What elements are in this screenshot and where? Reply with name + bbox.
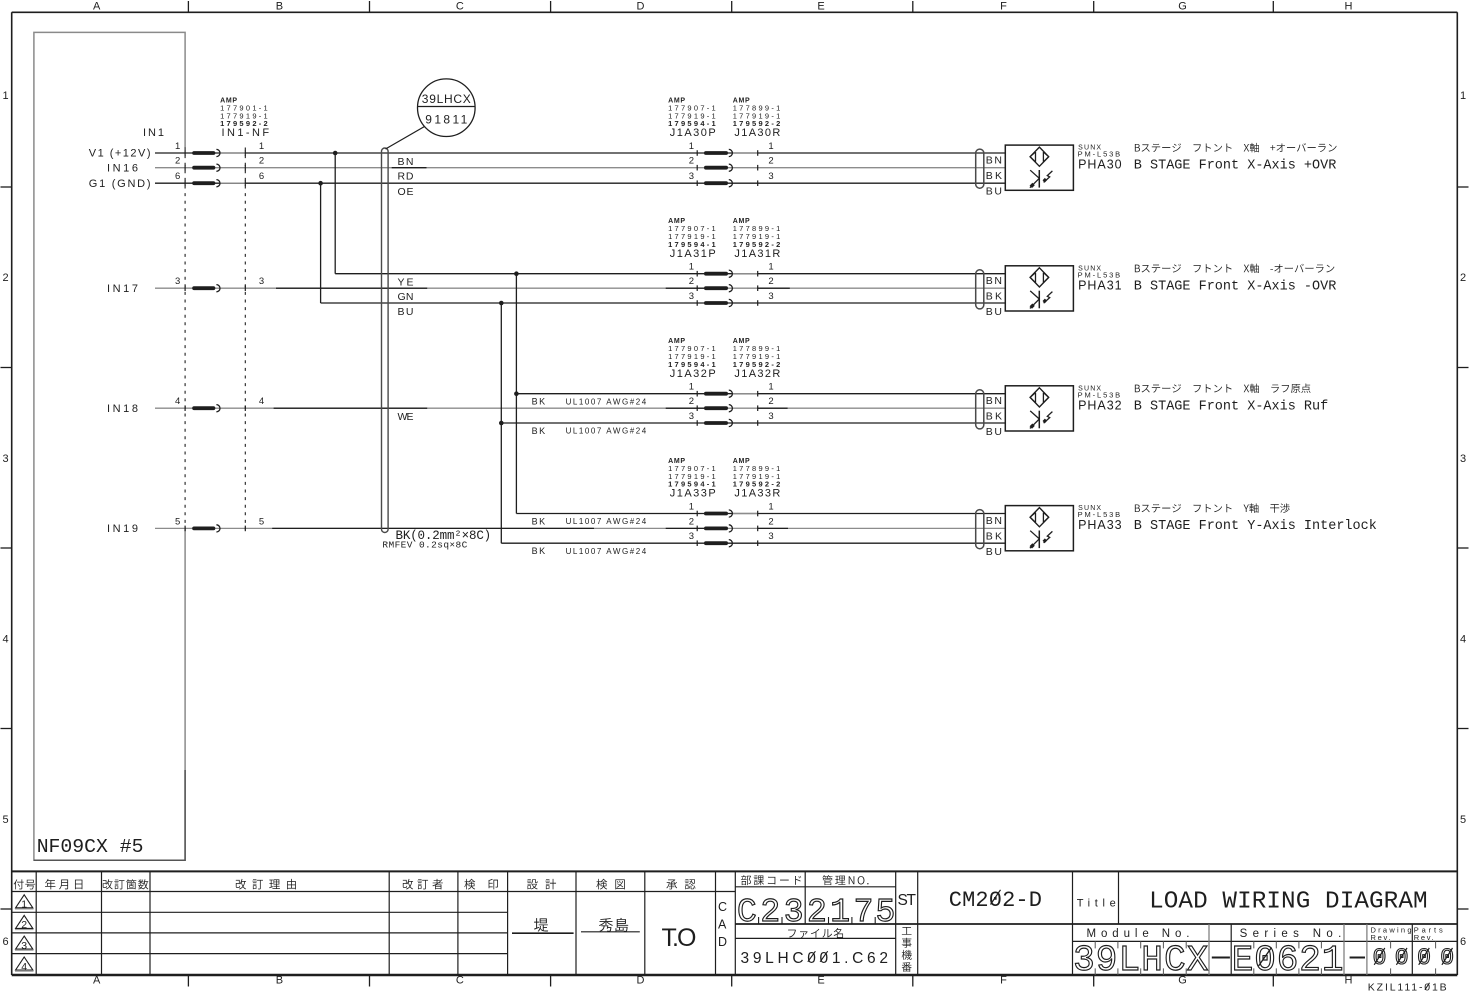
- connector IN1 dashed line P: [184, 148, 186, 530]
- svg-text:B STAGE Front X-Axis -OVR: B STAGE Front X-Axis -OVR: [1134, 279, 1337, 294]
- wire IN19 black segment a: [272, 527, 594, 529]
- svg-text:PHA32: PHA32: [1078, 398, 1122, 412]
- wire gray segment P-R group4 row1: [732, 513, 758, 515]
- revision row line 1: [12, 911, 508, 913]
- svg-text:3: 3: [768, 291, 773, 302]
- junction group2 row1: [514, 271, 519, 276]
- svg-text:3: 3: [259, 276, 264, 287]
- svg-text:BU: BU: [986, 426, 1002, 438]
- svg-text:3: 3: [689, 291, 694, 302]
- code C23 cell ticks: [759, 917, 876, 924]
- filename zero slashes: [808, 951, 828, 962]
- svg-text:B: B: [276, 975, 283, 987]
- svg-text:H: H: [1141, 940, 1163, 981]
- svg-text:RMFEV 0.2sq×8C: RMFEV 0.2sq×8C: [382, 540, 467, 551]
- svg-text:C: C: [456, 975, 464, 987]
- svg-text:1: 1: [768, 382, 773, 393]
- svg-text:1: 1: [689, 141, 694, 152]
- svg-text:Rev.: Rev.: [1414, 933, 1434, 942]
- sensor PHA31 maker label: [1078, 265, 1121, 279]
- svg-text:7: 7: [854, 894, 874, 931]
- svg-text:4: 4: [21, 961, 27, 973]
- svg-text:2: 2: [768, 516, 773, 527]
- module no dash 1: [1212, 957, 1230, 959]
- wire BK row1 group4: [516, 513, 1005, 515]
- zone ticks left: [1, 187, 12, 909]
- wire BK row3 group4: [501, 542, 1005, 544]
- svg-text:L: L: [1119, 940, 1141, 981]
- svg-text:2: 2: [689, 276, 694, 287]
- junction group2 row3: [499, 301, 504, 306]
- wire G1 GND (row3 group1): [155, 182, 1005, 184]
- revision row line 2: [12, 932, 508, 934]
- svg-text:2: 2: [760, 894, 780, 931]
- header 検印: [464, 879, 498, 890]
- header Parts Rev.: [1414, 926, 1443, 943]
- svg-text:4: 4: [259, 396, 264, 407]
- sensor PHA30 JP description: [1135, 143, 1337, 152]
- wire IN19 black segment b: [666, 527, 704, 529]
- svg-text:2: 2: [175, 156, 180, 167]
- sensor PHA33 maker label: [1078, 505, 1121, 519]
- zone letters bottom: [93, 975, 1352, 987]
- svg-text:GN: GN: [398, 291, 414, 303]
- svg-text:NF09CX #5: NF09CX #5: [37, 836, 144, 858]
- CAD column letters: [718, 900, 727, 949]
- svg-text:J1A31P: J1A31P: [670, 248, 716, 260]
- svg-text:C: C: [718, 900, 727, 914]
- connector IN1 pin 4 contact: [185, 405, 245, 412]
- sensor PHA32 JP description: [1135, 384, 1311, 393]
- svg-text:3: 3: [689, 411, 694, 422]
- zone ticks right: [1457, 187, 1468, 909]
- module divider 1366.9: [1366, 924, 1368, 975]
- svg-text:J1A30P: J1A30P: [670, 127, 716, 139]
- connector J1A31R part numbers: [733, 218, 781, 260]
- code C23 2175: [737, 894, 895, 931]
- connector J1A33 pin 2 contact: [697, 525, 758, 532]
- module divider 1209.0: [1208, 924, 1210, 975]
- svg-text:D: D: [637, 1, 645, 13]
- svg-text:91811: 91811: [425, 113, 467, 127]
- svg-text:2: 2: [689, 156, 694, 167]
- wire BK row3 group3: [501, 422, 1005, 424]
- connector J1A33 pin 1 contact: [697, 510, 758, 517]
- svg-text:D: D: [718, 935, 727, 949]
- sensor PHA31 cable gland oval: [976, 270, 984, 309]
- svg-text:2: 2: [2, 272, 8, 284]
- svg-text:BU: BU: [986, 546, 1002, 558]
- svg-text:BN: BN: [986, 275, 1002, 287]
- header 設計: [527, 879, 556, 890]
- wire vertical branch +12V to group2: [334, 153, 336, 274]
- svg-text:5: 5: [2, 814, 8, 826]
- svg-text:39LHCX: 39LHCX: [422, 92, 471, 106]
- svg-text:6: 6: [175, 171, 180, 182]
- svg-text:4: 4: [175, 396, 180, 407]
- wire IN17 (row2 group2, gray): [155, 287, 1005, 289]
- module no 39LHCX: [1073, 940, 1208, 981]
- revision row line 3: [12, 953, 508, 955]
- svg-text:1: 1: [175, 141, 180, 152]
- svg-text:B STAGE Front X-Axis Ruf: B STAGE Front X-Axis Ruf: [1134, 399, 1328, 414]
- svg-text:9: 9: [1096, 940, 1118, 981]
- svg-text:A: A: [718, 918, 727, 932]
- svg-text:E: E: [1232, 940, 1254, 981]
- svg-text:6: 6: [1460, 936, 1466, 948]
- wire BK row1 group3: [516, 393, 1005, 395]
- svg-text:V1 (+12V): V1 (+12V): [89, 147, 151, 159]
- header ファイル名: [788, 928, 843, 938]
- svg-text:BN: BN: [986, 154, 1002, 166]
- divider 805.2: [804, 871, 806, 924]
- svg-text:E: E: [817, 975, 824, 987]
- svg-text:3: 3: [768, 411, 773, 422]
- sensor PHA31 body: [1005, 266, 1073, 311]
- title block header line left: [12, 891, 736, 893]
- wire vertical branch group2 row3 to group4: [500, 303, 502, 543]
- header 年月日: [45, 879, 82, 890]
- wire gray segment P-R group2 row1: [732, 273, 758, 275]
- svg-text:A: A: [93, 1, 101, 13]
- svg-text:3: 3: [1073, 940, 1095, 981]
- sensor PHA30 body: [1005, 145, 1073, 190]
- junction group3 row3: [499, 421, 504, 426]
- wire IN18 (row2 group3, gray): [155, 407, 1005, 409]
- svg-text:2: 2: [689, 516, 694, 527]
- svg-text:X: X: [1187, 940, 1209, 981]
- svg-text:BN: BN: [986, 395, 1002, 407]
- svg-text:J1A33P: J1A33P: [670, 488, 716, 500]
- svg-text:2: 2: [807, 894, 827, 931]
- svg-text:2: 2: [768, 396, 773, 407]
- svg-text:BN: BN: [398, 156, 414, 168]
- wire IN19 black segment c: [758, 527, 788, 529]
- wire IN17 black segment a: [276, 287, 427, 289]
- svg-text:6: 6: [1277, 940, 1299, 981]
- sensor PHA31 JP description: [1135, 264, 1335, 273]
- junction V1/BN: [333, 151, 338, 156]
- connector IN1-NF part numbers: [220, 98, 269, 140]
- svg-text:1: 1: [830, 894, 850, 931]
- connector J1A32 pin 2 contact: [697, 405, 758, 412]
- connector J1A33 pin 3 contact: [697, 540, 758, 547]
- wire IN16 (row2 group1, gray): [155, 167, 1005, 169]
- svg-text:J1A32P: J1A32P: [670, 368, 716, 380]
- sensor PHA32 cable gland oval: [976, 390, 984, 429]
- svg-text:J1A32R: J1A32R: [734, 368, 780, 380]
- header 管理NO.: [822, 875, 868, 885]
- svg-text:LOAD WIRING DIAGRAM: LOAD WIRING DIAGRAM: [1149, 889, 1428, 916]
- label 工事機番 vertical: [902, 927, 912, 972]
- svg-text:PHA31: PHA31: [1078, 278, 1122, 292]
- svg-text:3: 3: [2, 453, 8, 465]
- rev digits 0000: [1373, 945, 1455, 971]
- module divider 1412.3: [1411, 924, 1413, 975]
- svg-text:3: 3: [689, 171, 694, 182]
- svg-text:BK: BK: [532, 546, 546, 556]
- wire IN17 black segment c: [758, 287, 790, 289]
- svg-text:3: 3: [784, 894, 804, 931]
- module divider 1344.0: [1343, 924, 1345, 975]
- svg-text:Rev.: Rev.: [1371, 933, 1391, 942]
- svg-text:1: 1: [768, 141, 773, 152]
- connector J1A33R part numbers: [733, 458, 781, 500]
- svg-text:A: A: [93, 975, 101, 987]
- wire IN18 black segment c: [758, 407, 788, 409]
- svg-text:F: F: [1000, 1, 1007, 13]
- svg-text:WE: WE: [398, 411, 414, 423]
- header line 部課コード: [735, 886, 895, 888]
- revision triangle 1: [15, 895, 34, 911]
- header 検図: [596, 879, 624, 890]
- svg-text:J1A33R: J1A33R: [734, 488, 780, 500]
- svg-text:3: 3: [1460, 453, 1466, 465]
- balloon 39LHCX/91811 leader: [386, 127, 425, 150]
- svg-text:1: 1: [1460, 90, 1466, 102]
- svg-text:G: G: [1178, 1, 1187, 13]
- connector J1A31 pin 1 contact: [697, 270, 758, 277]
- sensor PHA32 body: [1005, 386, 1073, 431]
- svg-text:YE: YE: [398, 277, 414, 289]
- svg-text:2: 2: [689, 396, 694, 407]
- connector J1A32R part numbers: [733, 338, 781, 380]
- signature 堤 underline: [512, 932, 574, 934]
- svg-text:PHA33: PHA33: [1078, 518, 1122, 532]
- signature 秀島 underline: [581, 931, 640, 933]
- svg-text:5: 5: [875, 894, 895, 931]
- svg-text:H: H: [1345, 1, 1353, 13]
- connector J1A30 pin 1 contact: [697, 149, 758, 156]
- divider Title right: [1118, 871, 1120, 924]
- svg-text:IN1-NF: IN1-NF: [222, 127, 270, 139]
- header 部課コード: [741, 875, 801, 885]
- connector J1A31 pin 3 contact: [697, 299, 758, 306]
- svg-text:ST: ST: [898, 892, 917, 909]
- connector IN1 pin 5 contact: [185, 525, 245, 532]
- module no dash 2: [1350, 957, 1365, 959]
- svg-text:5: 5: [1460, 814, 1466, 826]
- wire IN17 black segment b: [666, 287, 704, 289]
- wire IN18 black segment a: [274, 407, 428, 409]
- sensor PHA33 receiver symbol: [1030, 531, 1053, 549]
- svg-text:1: 1: [768, 502, 773, 513]
- junction GND/BU: [318, 181, 323, 186]
- zone numbers right: [1460, 90, 1466, 948]
- sensor PHA30 receiver symbol: [1030, 170, 1053, 188]
- revision triangle 2: [15, 915, 34, 931]
- wire vertical branch group2 row1 to group4: [515, 274, 517, 514]
- header Drawing Rev.: [1371, 926, 1412, 943]
- sensor PHA30 cable gland oval: [976, 149, 984, 188]
- svg-text:J1A30R: J1A30R: [734, 127, 780, 139]
- sensor PHA32 emitter symbol: [1030, 388, 1049, 407]
- title block top line: [12, 870, 1458, 872]
- wire IN16 black segment: [392, 167, 427, 169]
- connector IN1 pin 3 contact: [185, 285, 245, 292]
- svg-text:3: 3: [768, 171, 773, 182]
- wire gray segment P-R group3 row1: [732, 393, 758, 395]
- sensor PHA30 maker label: [1078, 145, 1121, 159]
- svg-text:1: 1: [768, 262, 773, 273]
- svg-text:5: 5: [175, 516, 180, 527]
- svg-text:CM202-D: CM202-D: [949, 888, 1042, 913]
- cable sheath (8-core): [382, 148, 389, 533]
- svg-text:1: 1: [21, 899, 27, 911]
- header 承認: [666, 879, 695, 889]
- wire gray segment IN1 row3: [219, 182, 245, 184]
- module header bottom line: [1073, 940, 1458, 942]
- connector IN1 dashed line R: [244, 148, 246, 530]
- svg-text:4: 4: [1460, 634, 1466, 646]
- sensor PHA31 receiver symbol: [1030, 291, 1053, 309]
- wire IN19 (row2 group4, gray): [155, 527, 1005, 529]
- connector J1A30 pin 3 contact: [697, 180, 758, 187]
- module divider 1231.2: [1230, 924, 1232, 975]
- CM202-D zero slash: [991, 890, 1001, 905]
- connector J1A31 pin 2 contact: [697, 285, 758, 292]
- connector IN1 pin 6 contact: [185, 180, 245, 187]
- svg-text:1: 1: [1322, 940, 1344, 981]
- title block vertical lines: [36, 871, 1072, 975]
- svg-text:2: 2: [768, 156, 773, 167]
- sensor PHA33 body: [1005, 506, 1073, 551]
- sensor PHA32 receiver symbol: [1030, 411, 1053, 429]
- connector J1A31P part numbers: [668, 218, 716, 260]
- svg-text:4: 4: [2, 634, 8, 646]
- svg-text:Title: Title: [1077, 897, 1116, 909]
- svg-text:BK: BK: [532, 426, 546, 436]
- svg-text:2: 2: [768, 276, 773, 287]
- wire gray segment P-R group1 row1: [732, 152, 758, 154]
- svg-text:2: 2: [1299, 940, 1321, 981]
- svg-text:0: 0: [1254, 940, 1276, 981]
- zone ticks top: [188, 1, 1273, 12]
- svg-text:1: 1: [689, 502, 694, 513]
- svg-text:C: C: [1164, 940, 1186, 981]
- revision triangle 4: [15, 957, 34, 973]
- connector IN1 pin 1 contact: [185, 149, 245, 156]
- svg-text:F: F: [1000, 975, 1007, 987]
- connector J1A32 pin 1 contact: [697, 390, 758, 397]
- wire vertical branch GND to group2: [320, 183, 322, 303]
- svg-text:KZIL111-01B: KZIL111-01B: [1368, 982, 1447, 992]
- balloon 39LHCX/91811: [418, 79, 476, 137]
- svg-text:3: 3: [768, 531, 773, 542]
- svg-text:BU: BU: [398, 306, 414, 318]
- svg-text:BK: BK: [532, 516, 546, 526]
- line under C23 row: [735, 923, 1457, 925]
- NF09CX #5 enclosure box: [34, 32, 185, 860]
- connector J1A30 pin 2 contact: [697, 164, 758, 171]
- module cell dashed separators: [1095, 941, 1435, 975]
- svg-text:T.O: T.O: [662, 924, 697, 952]
- svg-text:3: 3: [689, 531, 694, 542]
- sensor PHA33 JP description: [1135, 503, 1290, 512]
- svg-text:BU: BU: [986, 306, 1002, 318]
- svg-text:6: 6: [2, 936, 8, 948]
- header 改訂箇数: [103, 879, 149, 889]
- svg-text:PHA30: PHA30: [1078, 158, 1122, 172]
- signature 秀島: [599, 918, 628, 932]
- wire gray segment IN1 row1: [219, 152, 245, 154]
- svg-text:RD: RD: [398, 171, 414, 183]
- svg-text:D: D: [637, 975, 645, 987]
- line under ファイル名: [735, 937, 895, 939]
- svg-text:B STAGE Front Y-Axis Interlock: B STAGE Front Y-Axis Interlock: [1134, 519, 1377, 534]
- svg-text:1: 1: [2, 90, 8, 102]
- wire BN row1 group2: [335, 273, 1005, 275]
- sensor PHA32 maker label: [1078, 385, 1121, 399]
- svg-text:B: B: [276, 1, 283, 13]
- svg-text:E: E: [817, 1, 824, 13]
- svg-text:BU: BU: [986, 185, 1002, 197]
- svg-text:2: 2: [259, 156, 264, 167]
- revision triangle 3: [15, 936, 34, 952]
- signature 堤: [534, 918, 548, 932]
- svg-text:1: 1: [689, 262, 694, 273]
- header 改訂者: [403, 879, 443, 890]
- svg-text:C: C: [456, 1, 464, 13]
- header 改訂理由: [236, 879, 296, 890]
- sensor PHA31 emitter symbol: [1030, 268, 1049, 287]
- svg-text:OE: OE: [398, 186, 414, 198]
- svg-text:BK: BK: [532, 397, 546, 407]
- series E0621 zero slash: [1259, 948, 1272, 967]
- sensor PHA33 emitter symbol: [1030, 508, 1049, 527]
- wire BU row3 group2: [321, 302, 1006, 304]
- svg-text:6: 6: [259, 171, 264, 182]
- svg-text:BN: BN: [986, 515, 1002, 527]
- connector J1A30R part numbers: [733, 98, 781, 140]
- wire V1 +12V (row1 group1): [155, 152, 1005, 154]
- svg-text:1: 1: [259, 141, 264, 152]
- connector J1A32P part numbers: [668, 338, 716, 380]
- svg-text:B STAGE Front X-Axis +OVR: B STAGE Front X-Axis +OVR: [1134, 159, 1337, 174]
- junction group3 row1: [514, 391, 519, 396]
- wire IN18 black segment b: [666, 407, 704, 409]
- svg-text:3: 3: [21, 940, 27, 952]
- svg-text:C: C: [737, 894, 757, 931]
- svg-text:J1A31R: J1A31R: [734, 248, 780, 260]
- connector J1A30P part numbers: [668, 98, 716, 140]
- sensor PHA33 cable gland oval: [976, 510, 984, 549]
- zone ticks bottom: [188, 975, 1273, 987]
- svg-text:5: 5: [259, 516, 264, 527]
- header 付号: [14, 879, 36, 889]
- doc number KZIL111-01B: [1368, 982, 1447, 992]
- svg-text:3: 3: [175, 276, 180, 287]
- svg-text:H: H: [1345, 975, 1353, 987]
- svg-text:1: 1: [689, 382, 694, 393]
- zone numbers left: [2, 90, 8, 948]
- connector IN1 pin 2 contact: [185, 164, 245, 171]
- series no E0621: [1232, 940, 1344, 981]
- svg-text:2: 2: [21, 919, 27, 931]
- sensor PHA30 emitter symbol: [1030, 147, 1049, 166]
- connector J1A33P part numbers: [668, 458, 716, 500]
- connector J1A32 pin 3 contact: [697, 419, 758, 426]
- zone letters top: [93, 1, 1352, 13]
- svg-text:2: 2: [1460, 272, 1466, 284]
